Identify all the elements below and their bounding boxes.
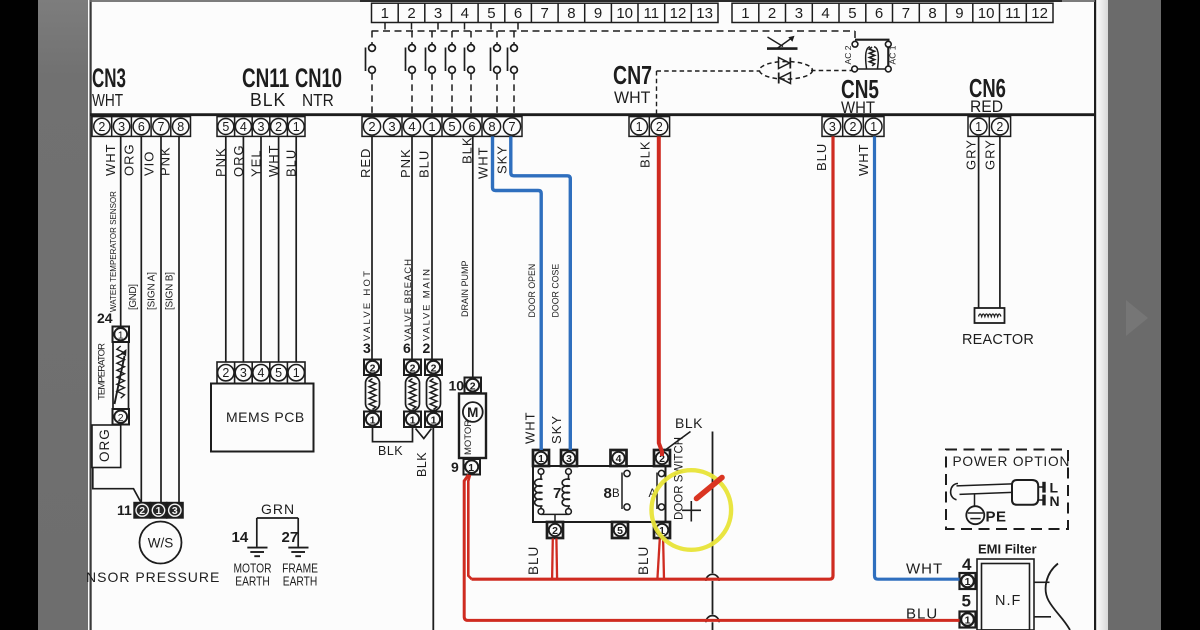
svg-text:2: 2 xyxy=(118,412,124,424)
svg-text:2: 2 xyxy=(222,366,229,380)
svg-text:[GND]: [GND] xyxy=(128,284,139,310)
svg-text:1: 1 xyxy=(293,366,300,380)
svg-text:CN3: CN3 xyxy=(92,63,126,93)
connector CN5 pins 3,2,1 xyxy=(822,117,884,137)
svg-text:4: 4 xyxy=(258,366,265,380)
svg-text:BLU: BLU xyxy=(814,143,829,171)
valve BLK wire to bottom xyxy=(432,427,434,630)
svg-text:REACTOR: REACTOR xyxy=(962,332,1034,348)
rotated wire colour labels xyxy=(103,136,998,179)
MEMS PCB box xyxy=(211,384,314,452)
right page edge sliver xyxy=(1097,0,1108,630)
cursor cross mark xyxy=(682,501,701,522)
svg-text:1: 1 xyxy=(370,414,376,426)
svg-text:BLK: BLK xyxy=(415,452,429,477)
svg-text:4: 4 xyxy=(461,5,469,22)
pressure sensor W/S xyxy=(140,522,182,564)
connector CN10 pins 2,3,4,1,5,6,8,7 xyxy=(362,117,522,137)
faint next-page arrow in right gray bar xyxy=(1126,300,1148,336)
svg-text:8: 8 xyxy=(488,119,495,134)
plug body xyxy=(1012,480,1038,505)
svg-text:1: 1 xyxy=(468,462,474,474)
svg-text:7: 7 xyxy=(541,5,549,22)
svg-text:4: 4 xyxy=(821,5,829,22)
svg-text:1: 1 xyxy=(381,5,389,22)
svg-text:24: 24 xyxy=(97,310,113,326)
MEMS PCB connector pins 2,3,4,5,1 xyxy=(217,362,305,384)
svg-text:1: 1 xyxy=(975,120,982,134)
CN6 wires to reactor xyxy=(979,136,1000,308)
svg-text:2: 2 xyxy=(768,5,776,22)
svg-text:13: 13 xyxy=(696,5,713,22)
svg-text:WHT: WHT xyxy=(856,143,871,176)
valve 6 (valve breach) xyxy=(403,340,421,427)
svg-text:5: 5 xyxy=(487,5,495,22)
svg-text:2: 2 xyxy=(275,120,282,134)
svg-text:1: 1 xyxy=(431,414,437,426)
svg-text:MOTOR: MOTOR xyxy=(463,420,474,455)
CN11 to MEMS wires xyxy=(226,136,296,362)
svg-text:M: M xyxy=(467,405,478,420)
connector CN6 pins 1,2 xyxy=(968,117,1011,137)
svg-text:8: 8 xyxy=(177,120,184,134)
svg-text:3: 3 xyxy=(829,120,836,134)
svg-text:6: 6 xyxy=(403,340,411,356)
right black bar xyxy=(1161,0,1200,630)
svg-text:MEMS PCB: MEMS PCB xyxy=(226,409,305,425)
blue wire CN5 pin1 to EMI filter pin4 xyxy=(875,136,960,579)
svg-text:3: 3 xyxy=(566,453,572,465)
main bus line xyxy=(90,113,1095,116)
svg-text:3: 3 xyxy=(363,340,371,356)
svg-text:1: 1 xyxy=(410,414,416,426)
svg-text:1: 1 xyxy=(156,505,162,517)
prong L xyxy=(1038,486,1044,488)
svg-text:N.F: N.F xyxy=(995,593,1021,609)
svg-text:2: 2 xyxy=(656,120,663,134)
svg-text:6: 6 xyxy=(875,5,883,22)
svg-text:WHT: WHT xyxy=(906,561,943,578)
svg-text:BLK: BLK xyxy=(675,415,703,431)
svg-text:WHT: WHT xyxy=(523,411,538,444)
left gray bar xyxy=(38,0,88,630)
relay contact switches SW1-SW7 xyxy=(366,31,518,114)
svg-text:CN7: CN7 xyxy=(613,60,652,89)
svg-text:GRY: GRY xyxy=(964,139,979,170)
red stubs door switch pin1 xyxy=(657,539,659,580)
connector name labels xyxy=(92,60,1006,117)
svg-text:10: 10 xyxy=(978,5,995,22)
motor earth ground 14 xyxy=(247,548,267,557)
CN10 output wires xyxy=(372,136,473,377)
svg-text:2: 2 xyxy=(431,362,437,374)
svg-text:4: 4 xyxy=(240,120,247,134)
svg-text:7: 7 xyxy=(553,485,561,502)
svg-text:1: 1 xyxy=(428,119,435,134)
svg-text:5: 5 xyxy=(962,592,971,611)
svg-text:9: 9 xyxy=(594,5,602,22)
door switch bottom pins 2,5,1 xyxy=(547,522,670,538)
connector CN7 pins 1,2 xyxy=(629,117,670,137)
svg-text:6: 6 xyxy=(138,120,145,134)
sheet right border xyxy=(1094,0,1096,630)
svg-text:11: 11 xyxy=(117,502,132,518)
svg-text:8: 8 xyxy=(604,485,612,502)
svg-text:DOOR OPEN: DOOR OPEN xyxy=(527,264,537,318)
svg-text:FRAME: FRAME xyxy=(282,563,318,576)
red wire drain pump to EMI filter pin5 xyxy=(464,475,959,621)
wire ORG box to connector 11 xyxy=(120,425,122,426)
svg-text:N: N xyxy=(1050,493,1060,509)
svg-text:7: 7 xyxy=(508,119,515,134)
svg-text:1: 1 xyxy=(293,120,300,134)
svg-text:5: 5 xyxy=(848,5,856,22)
svg-text:BLK: BLK xyxy=(250,90,286,110)
right gray bar xyxy=(1108,0,1161,630)
svg-text:WHT: WHT xyxy=(92,91,123,110)
svg-text:2: 2 xyxy=(552,525,558,537)
svg-text:PE: PE xyxy=(986,509,1007,526)
svg-text:GRN: GRN xyxy=(261,501,295,517)
svg-text:9: 9 xyxy=(451,459,459,475)
svg-text:AC 1: AC 1 xyxy=(888,45,898,64)
svg-text:3: 3 xyxy=(118,120,125,134)
svg-text:BLK: BLK xyxy=(638,140,653,168)
svg-text:6: 6 xyxy=(514,5,522,22)
svg-text:MOTOR: MOTOR xyxy=(234,563,272,576)
dashed bus under row 1 xyxy=(372,23,856,41)
svg-text:2: 2 xyxy=(470,380,476,392)
red stubs door switch pin2 xyxy=(551,539,554,580)
svg-text:6: 6 xyxy=(468,119,475,134)
svg-text:14: 14 xyxy=(232,529,249,546)
svg-text:ORG: ORG xyxy=(122,143,137,176)
svg-text:EMI Filter: EMI Filter xyxy=(978,542,1037,557)
svg-text:3: 3 xyxy=(388,119,395,134)
svg-text:SKY: SKY xyxy=(549,415,564,444)
svg-text:RED: RED xyxy=(358,148,373,178)
drain pump 10 xyxy=(449,378,487,476)
cable squiggle right of EMI filter xyxy=(1034,581,1050,583)
svg-text:2: 2 xyxy=(370,362,376,374)
temperature sensor 24 xyxy=(97,310,129,425)
PE earth circle xyxy=(974,494,976,506)
svg-text:DOOR SWITCH: DOOR SWITCH xyxy=(674,437,686,520)
svg-text:B: B xyxy=(612,488,620,500)
svg-text:CN11: CN11 xyxy=(242,63,289,93)
svg-text:DOOR COSE: DOOR COSE xyxy=(551,264,561,318)
door switch internals: coils 7 xyxy=(535,469,572,522)
svg-text:11: 11 xyxy=(644,5,660,22)
svg-text:ORG: ORG xyxy=(97,428,112,462)
frame earth ground 27 xyxy=(288,548,308,557)
connector CN3 pins 2,3,6,7,8 xyxy=(92,117,191,137)
svg-text:4: 4 xyxy=(616,453,622,465)
blue wire CN10 pin7 to door switch pin3 xyxy=(511,136,571,450)
left black bar xyxy=(0,0,38,630)
svg-text:4: 4 xyxy=(408,119,415,134)
svg-text:GRY: GRY xyxy=(983,139,998,170)
svg-text:3: 3 xyxy=(240,366,247,380)
svg-text:2: 2 xyxy=(368,119,375,134)
terminal strip row 1 (1-13) xyxy=(372,3,719,22)
svg-text:VALVE MAIN: VALVE MAIN xyxy=(422,269,433,341)
svg-text:8: 8 xyxy=(928,5,936,22)
svg-text:SKY: SKY xyxy=(495,145,510,174)
svg-text:1: 1 xyxy=(636,120,643,134)
red pen mark annotation xyxy=(697,478,723,499)
sheet left border xyxy=(90,0,92,630)
door switch assembly box xyxy=(533,466,666,522)
relay coil AC2/AC1 xyxy=(852,40,892,72)
svg-text:PNK: PNK xyxy=(398,148,413,178)
thermal cut-out switch xyxy=(767,36,798,49)
svg-text:1: 1 xyxy=(741,5,749,22)
svg-text:5: 5 xyxy=(448,119,455,134)
blue wire CN10 pin8 to door switch pin1 xyxy=(493,136,542,450)
svg-text:2: 2 xyxy=(407,5,415,22)
red wire drain pump to bus xyxy=(468,475,471,579)
svg-text:W/S: W/S xyxy=(148,536,174,551)
POWER OPTION dashed box xyxy=(946,450,1068,530)
svg-text:27: 27 xyxy=(282,529,299,546)
connector 11 (pressure sensor) xyxy=(117,502,183,518)
svg-text:WHT: WHT xyxy=(476,146,491,179)
svg-text:RED: RED xyxy=(970,97,1003,116)
svg-text:BLU: BLU xyxy=(417,150,432,178)
svg-text:5: 5 xyxy=(275,366,282,380)
svg-text:2: 2 xyxy=(996,120,1003,134)
svg-text:PNK: PNK xyxy=(158,146,173,176)
prong N xyxy=(1038,499,1044,501)
svg-text:1: 1 xyxy=(965,615,971,627)
svg-text:2: 2 xyxy=(98,120,105,134)
valve 2 (valve main) xyxy=(423,340,443,427)
svg-text:NSOR PRESSURE: NSOR PRESSURE xyxy=(86,569,220,585)
svg-text:9: 9 xyxy=(955,5,963,22)
svg-text:5: 5 xyxy=(222,120,229,134)
svg-text:8: 8 xyxy=(567,5,575,22)
ORG label box xyxy=(92,425,121,468)
svg-text:3: 3 xyxy=(258,120,265,134)
dashed link CN7 to triac xyxy=(657,71,854,115)
svg-text:[SIGN B]: [SIGN B] xyxy=(165,272,176,310)
red wire bus: door switch to CN5 pin3 xyxy=(472,136,834,579)
svg-text:10: 10 xyxy=(616,5,633,22)
pcb top line xyxy=(90,0,1095,2)
red wire CN7 pin2 to door switch pin2 xyxy=(659,136,662,456)
svg-text:WHT: WHT xyxy=(841,99,875,117)
CN3 sensor wires xyxy=(121,136,179,503)
svg-text:WHT: WHT xyxy=(103,143,118,176)
svg-text:2: 2 xyxy=(410,362,416,374)
terminal strip row 2 (1-12) xyxy=(732,3,1053,22)
triac diode pair in dashed oval xyxy=(760,58,813,84)
svg-text:7: 7 xyxy=(902,5,910,22)
power cord hook xyxy=(951,484,958,500)
svg-text:AC 2: AC 2 xyxy=(843,45,853,64)
svg-text:BLK: BLK xyxy=(378,444,403,458)
valve common link wires xyxy=(373,427,413,442)
svg-text:5: 5 xyxy=(617,525,623,537)
valve 3 (valve hot) xyxy=(363,340,381,427)
rotated signal name labels xyxy=(97,191,561,400)
svg-text:2: 2 xyxy=(139,505,145,517)
svg-text:4: 4 xyxy=(962,555,972,574)
svg-text:BLU: BLU xyxy=(636,546,651,575)
power cable lines xyxy=(957,484,1013,486)
svg-text:3: 3 xyxy=(434,5,442,22)
connector CN11 pins 5,4,3,2,1 xyxy=(217,117,305,137)
svg-text:BLU: BLU xyxy=(526,546,541,575)
svg-text:3: 3 xyxy=(795,5,803,22)
svg-text:10: 10 xyxy=(449,378,465,394)
svg-text:2: 2 xyxy=(850,120,857,134)
svg-text:NTR: NTR xyxy=(302,90,334,110)
svg-text:12: 12 xyxy=(670,5,687,22)
reactor xyxy=(975,308,1005,323)
svg-text:7: 7 xyxy=(158,120,165,134)
svg-text:3: 3 xyxy=(172,505,178,517)
svg-text:WATER TEMPERATOR SENSOR: WATER TEMPERATOR SENSOR xyxy=(109,191,118,312)
svg-text:EARTH: EARTH xyxy=(235,576,270,589)
svg-text:VIO: VIO xyxy=(142,151,157,176)
svg-text:12: 12 xyxy=(1031,5,1048,22)
svg-text:1: 1 xyxy=(870,120,877,134)
svg-text:11: 11 xyxy=(1005,5,1021,22)
earth bracket wires xyxy=(257,518,298,547)
svg-text:POWER OPTION: POWER OPTION xyxy=(953,453,1071,469)
svg-text:1: 1 xyxy=(538,453,544,465)
svg-text:[SIGN A]: [SIGN A] xyxy=(147,272,158,310)
svg-text:1: 1 xyxy=(965,576,971,588)
svg-text:2: 2 xyxy=(423,340,431,356)
svg-text:WHT: WHT xyxy=(614,89,650,108)
svg-text:DRAIN PUMP: DRAIN PUMP xyxy=(460,260,470,317)
crossover hops on BLK wire xyxy=(706,574,719,581)
svg-text:CN10: CN10 xyxy=(295,62,342,92)
svg-text:1: 1 xyxy=(118,329,124,341)
door switch top pins 1,3,4,2 xyxy=(533,450,670,466)
svg-text:TEMPERATOR: TEMPERATOR xyxy=(97,343,108,400)
yellow highlight circle annotation xyxy=(652,470,732,550)
svg-text:EARTH: EARTH xyxy=(283,576,318,589)
